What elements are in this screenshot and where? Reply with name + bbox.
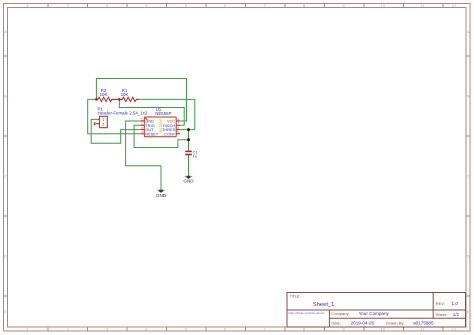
- connector P1 pin numbers: [102, 118, 104, 126]
- border row letters right: [467, 29, 470, 314]
- svg-text:Company:: Company:: [331, 311, 349, 316]
- IC U1 left pin names: [145, 119, 159, 137]
- IC U1 value label: [155, 111, 171, 116]
- capacitor C1: [185, 151, 192, 154]
- svg-text:A: A: [4, 29, 7, 34]
- resistor R1 labels: [121, 88, 129, 97]
- svg-text:B: B: [467, 94, 470, 99]
- title block Drawn By label: [386, 320, 404, 325]
- title block Date label: [331, 320, 341, 325]
- resistor R1: [119, 97, 139, 101]
- svg-text:Header-Female 2.54_1x2: Header-Female 2.54_1x2: [98, 110, 148, 115]
- title block vertical divider left of company cell: [328, 310, 330, 327]
- svg-text:12: 12: [452, 3, 457, 8]
- left edge row tick marks: [4, 56, 8, 296]
- title block Date value: [351, 320, 375, 325]
- IC U1 vertical part-name watermark: [159, 118, 163, 133]
- svg-text:GND: GND: [156, 193, 167, 198]
- svg-text:1: 1: [102, 118, 104, 122]
- IC U1 pin1 marker: [145, 118, 147, 120]
- junction dot R2/R1: [118, 98, 121, 101]
- ground symbol left label: [156, 193, 167, 198]
- wire R1 right to THRES pin: [136, 99, 194, 129]
- title block sheet name value: [313, 302, 335, 308]
- title block REV label: [436, 301, 445, 306]
- IC U1 right pin names (VCC red): [162, 119, 176, 137]
- svg-text:https://lceda.cn/editor-demos: https://lceda.cn/editor-demos: [289, 311, 326, 315]
- svg-text:E: E: [467, 309, 470, 314]
- connector P1 pin 2: [94, 123, 99, 125]
- svg-text:a0175885: a0175885: [413, 320, 434, 325]
- border row letters left: [4, 29, 7, 314]
- svg-text:RESET: RESET: [145, 131, 159, 136]
- wire THRES junction down to C1: [188, 130, 190, 151]
- title block TITLE label: [290, 294, 301, 298]
- wire VCC top rail: [96, 79, 186, 122]
- svg-text:B: B: [4, 94, 7, 99]
- title block horizontal divider under title row: [287, 309, 466, 311]
- connector P1 value label: [98, 110, 148, 115]
- junction dot THRES: [187, 128, 190, 131]
- svg-text:NE555P: NE555P: [159, 118, 163, 133]
- svg-text:1.0: 1.0: [452, 301, 459, 306]
- svg-text:NE555P: NE555P: [155, 111, 171, 116]
- svg-text:E: E: [4, 309, 7, 314]
- title block web address: [289, 311, 326, 315]
- svg-text:A: A: [467, 29, 470, 34]
- IC U1 left pin stubs: [141, 121, 145, 134]
- svg-text:REV:: REV:: [436, 301, 445, 306]
- svg-text:1u: 1u: [193, 154, 197, 158]
- IC U1 left pin numbers: [141, 117, 143, 134]
- IC U1 right pin numbers: [177, 117, 179, 134]
- title block REV value: [452, 301, 459, 306]
- title block outline: [287, 293, 466, 328]
- junction dot TRIG net: [187, 138, 190, 141]
- svg-text:D: D: [467, 254, 470, 259]
- svg-text:10K: 10K: [100, 92, 108, 97]
- title block Company value: [359, 311, 390, 316]
- svg-text:10: 10: [381, 3, 386, 8]
- svg-text:Sheet_1: Sheet_1: [313, 302, 335, 308]
- wire C1 bottom to ground: [188, 155, 190, 176]
- IC U1 right pin stubs: [176, 121, 180, 134]
- wire VCC to RESET pin: [88, 99, 141, 133]
- capacitor C1 labels: [193, 151, 198, 159]
- wire stub left of R2: [96, 98, 98, 100]
- IC U1 reference label: [156, 107, 162, 112]
- svg-text:D: D: [4, 254, 7, 259]
- title block horizontal divider under company row: [329, 317, 465, 319]
- svg-text:Date:: Date:: [331, 320, 341, 325]
- right edge row tick marks: [466, 56, 470, 296]
- ground symbol left: [156, 190, 165, 193]
- wire OUT to P1 pin 1: [91, 119, 140, 143]
- svg-text:Your Company: Your Company: [359, 311, 390, 316]
- svg-text:Drawn By:: Drawn By:: [386, 320, 404, 325]
- connector P1 pin 1: [98, 118, 99, 120]
- svg-text:C: C: [4, 174, 7, 179]
- op-amp/timer IC U1 body: [144, 117, 176, 137]
- title block Sheet label: [436, 312, 448, 317]
- wire segment between R2 and R1: [112, 98, 123, 100]
- title block Company label: [331, 311, 349, 316]
- title block vertical divider for REV column: [432, 293, 434, 319]
- connector P1 body: [99, 116, 107, 127]
- title block Drawn By value: [413, 320, 434, 325]
- svg-text:2019-04-26: 2019-04-26: [351, 320, 375, 325]
- svg-text:GND: GND: [183, 179, 194, 184]
- svg-text:C: C: [467, 174, 470, 179]
- wire R1R2 junction to DISCH pin: [119, 99, 184, 125]
- svg-text:2: 2: [102, 122, 104, 126]
- svg-text:CONT: CONT: [164, 131, 176, 136]
- resistor R2 labels: [100, 88, 108, 97]
- svg-text:TITLE:: TITLE:: [290, 294, 301, 298]
- svg-text:10K: 10K: [121, 92, 129, 97]
- connector P1 reference label: [98, 107, 104, 112]
- title block Sheet value: [453, 312, 460, 317]
- resistor R2: [96, 97, 119, 101]
- ground symbol right: [184, 176, 193, 179]
- wire IC GND pin to ground: [126, 121, 161, 190]
- bottom edge column tick marks: [48, 327, 443, 331]
- ground symbol right label: [183, 179, 194, 184]
- junction dot R2 left / VCC: [95, 98, 98, 101]
- svg-text:1/1: 1/1: [453, 312, 460, 317]
- border column numbers top: [27, 3, 457, 8]
- svg-text:Sheet:: Sheet:: [436, 312, 448, 317]
- wire TRIG to THRES net: [134, 125, 188, 147]
- border column numbers bottom: [27, 327, 457, 332]
- top edge column tick marks: [48, 4, 443, 8]
